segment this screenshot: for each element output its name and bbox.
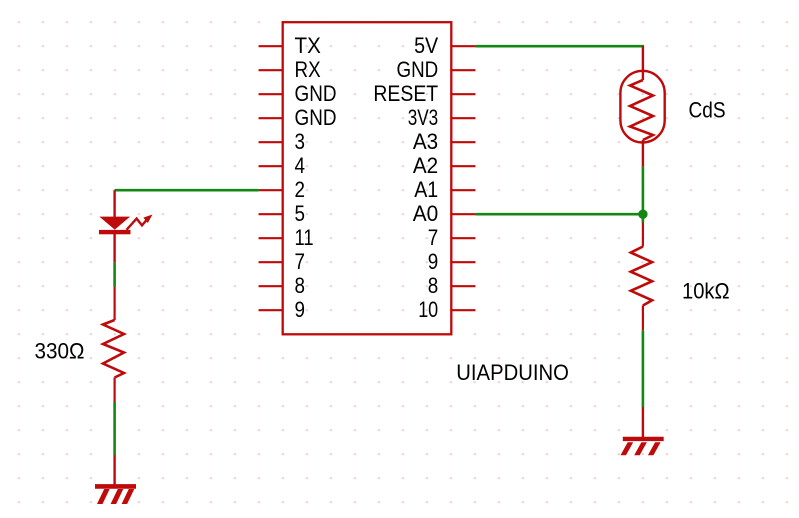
pin GND left 1 bbox=[259, 81, 337, 106]
pin RX bbox=[259, 57, 321, 82]
pin 5 bbox=[259, 201, 305, 226]
pin 8 left bbox=[259, 273, 305, 298]
svg-text:7: 7 bbox=[295, 249, 306, 274]
resistor R3 10k bottom pin bbox=[642, 306, 644, 331]
svg-text:9: 9 bbox=[428, 249, 439, 274]
svg-text:RESET: RESET bbox=[373, 81, 438, 106]
svg-text:4: 4 bbox=[295, 153, 306, 178]
pin 3V3 bbox=[408, 105, 476, 130]
svg-text:TX: TX bbox=[295, 33, 322, 58]
ground GND left hatch 3 bbox=[122, 489, 135, 504]
photoresistor R2 CdS top pin bbox=[642, 46, 644, 80]
svg-text:7: 7 bbox=[428, 225, 439, 250]
svg-text:GND: GND bbox=[295, 81, 337, 106]
pin 5V bbox=[414, 33, 475, 58]
wire net pin2 to LED bbox=[115, 189, 259, 192]
resistor R3 10k zigzag bbox=[631, 247, 652, 306]
svg-text:9: 9 bbox=[295, 297, 306, 322]
wire net A0 to junction bbox=[475, 213, 643, 216]
resistor R3 10k top pin bbox=[642, 223, 644, 247]
pin TX bbox=[259, 33, 321, 58]
svg-text:10kΩ: 10kΩ bbox=[682, 279, 730, 304]
svg-text:UIAPDUINO: UIAPDUINO bbox=[456, 360, 569, 385]
pin GND right bbox=[397, 57, 476, 82]
pin 9 left bbox=[259, 297, 305, 322]
pin GND left 2 bbox=[259, 105, 337, 130]
pin 10 right bbox=[418, 297, 475, 322]
op-amp U1 UIAPDUINO body bbox=[283, 22, 452, 334]
LED D1 cathode pin bbox=[113, 234, 115, 262]
LED D1 light arrow bbox=[127, 215, 153, 230]
svg-text:3: 3 bbox=[295, 129, 306, 154]
pin 8 right bbox=[428, 273, 476, 298]
ground GND left hatch 2 bbox=[111, 489, 124, 504]
wire net LED cathode to 330R bbox=[113, 262, 116, 287]
ground GND left bar bbox=[95, 484, 136, 489]
ground GND right hatch 1 bbox=[621, 442, 634, 455]
svg-text:10: 10 bbox=[418, 297, 438, 322]
wire net 330R bottom to ground bbox=[113, 402, 116, 455]
ground GND left hatch 1 bbox=[97, 489, 110, 504]
LED D1 cathode bar bbox=[99, 230, 131, 234]
svg-text:GND: GND bbox=[397, 57, 439, 82]
pin RESET bbox=[373, 81, 475, 106]
svg-text:A3: A3 bbox=[413, 129, 438, 154]
pin 3 bbox=[259, 129, 305, 154]
pin A0 bbox=[413, 201, 476, 226]
ground GND right pin bbox=[642, 407, 644, 439]
pin 11 bbox=[259, 225, 314, 250]
pin 7 left bbox=[259, 249, 305, 274]
svg-text:5: 5 bbox=[295, 201, 306, 226]
resistor R1 330 bottom pin bbox=[113, 378, 115, 403]
svg-text:330Ω: 330Ω bbox=[35, 339, 85, 364]
pin A1 bbox=[414, 177, 475, 202]
pin 4 bbox=[259, 153, 305, 178]
photoresistor R2 CdS body bbox=[620, 71, 664, 143]
ground GND left pin bbox=[113, 455, 115, 486]
pin A3 bbox=[413, 129, 475, 154]
junction A0 node bbox=[638, 210, 647, 219]
ground GND right bar bbox=[623, 437, 664, 441]
svg-text:8: 8 bbox=[295, 273, 306, 298]
pin A2 bbox=[413, 153, 475, 178]
pin 9 right bbox=[428, 249, 476, 274]
svg-text:5V: 5V bbox=[414, 33, 438, 58]
svg-text:A1: A1 bbox=[414, 177, 438, 202]
ground GND right hatch 3 bbox=[648, 442, 661, 455]
svg-text:8: 8 bbox=[428, 273, 439, 298]
LED D1 triangle bbox=[99, 217, 130, 230]
resistor R1 330 zigzag bbox=[103, 320, 124, 378]
svg-text:3V3: 3V3 bbox=[408, 105, 439, 130]
svg-text:2: 2 bbox=[295, 177, 306, 202]
wire net CdS bottom to 10k top bbox=[642, 166, 645, 222]
photoresistor R2 CdS zigzag bbox=[630, 80, 653, 140]
LED D1 anode pin bbox=[113, 190, 115, 217]
photoresistor R2 CdS bottom pin bbox=[642, 140, 644, 166]
wire net 5V to CdS bbox=[475, 45, 644, 48]
ground GND right hatch 2 bbox=[634, 442, 647, 455]
wire net 10k bottom to ground bbox=[642, 330, 645, 407]
pin 7 right bbox=[428, 225, 476, 250]
pin 2 bbox=[259, 177, 305, 202]
resistor R1 330 top pin bbox=[113, 287, 115, 320]
svg-text:11: 11 bbox=[295, 225, 314, 250]
svg-text:A0: A0 bbox=[413, 201, 439, 226]
svg-text:GND: GND bbox=[295, 105, 337, 130]
svg-text:A2: A2 bbox=[413, 153, 438, 178]
svg-text:CdS: CdS bbox=[689, 98, 726, 123]
svg-text:RX: RX bbox=[295, 57, 321, 82]
